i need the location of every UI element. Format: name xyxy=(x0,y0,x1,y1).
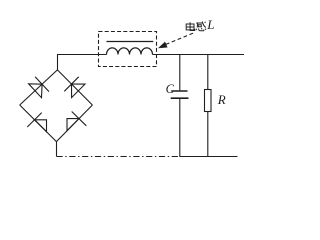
annotation dashed leader line xyxy=(166,33,194,45)
capacitor C top plate xyxy=(171,90,187,92)
inductor L coil xyxy=(107,48,153,55)
wire bottom solid segment xyxy=(180,156,238,158)
inductor core bar xyxy=(107,41,154,43)
wire capacitor branch lower xyxy=(179,99,181,157)
wire resistor branch upper xyxy=(207,54,209,90)
wire capacitor branch upper xyxy=(179,54,181,90)
svg-text:C: C xyxy=(166,82,175,96)
label 电感L : hand-drawn CJK glyph 感 xyxy=(196,22,206,31)
diode D2 (top-right) xyxy=(72,84,86,98)
annotation arrowhead pointing at inductor xyxy=(158,42,167,48)
wire from bridge bottom vertex down xyxy=(56,142,58,157)
bridge: diamond edge bottom-left xyxy=(20,105,57,142)
dashed box around inductor xyxy=(99,32,157,67)
label 电感L : hand-drawn CJK glyph 电 xyxy=(186,22,195,30)
bridge: diamond edge top-right xyxy=(57,70,92,105)
svg-text:L: L xyxy=(206,17,214,32)
wire bottom dash-dot segment xyxy=(57,156,181,158)
diode D3 (bottom-left) xyxy=(35,120,47,132)
bridge: diamond edge top-left xyxy=(20,70,58,105)
wire resistor branch lower xyxy=(207,112,209,158)
wire vertical from top corner down to bridge top vertex xyxy=(57,54,59,70)
diode D1 (top-left) xyxy=(29,84,42,98)
wire top horizontal left segment (corner to inductor) xyxy=(58,54,107,56)
bridge: diamond edge bottom-right xyxy=(56,105,92,142)
wire top horizontal right segment (inductor to right end) xyxy=(153,54,245,56)
capacitor C bottom plate xyxy=(171,97,189,99)
resistor R body xyxy=(205,90,212,112)
svg-text:R: R xyxy=(217,92,226,107)
diode D4 (bottom-right) xyxy=(67,119,79,131)
